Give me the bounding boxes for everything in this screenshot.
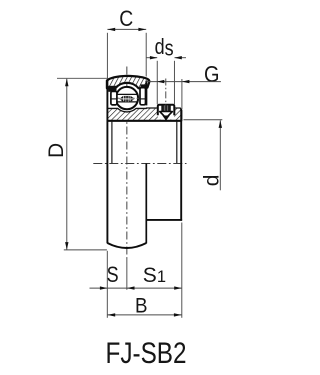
bore line (thick) — [107, 120, 181, 122]
inner ring left face recessed line — [111, 121, 113, 163]
sleeve bottom edge — [146, 219, 183, 221]
S1/B extension line right — [181, 223, 183, 318]
svg-text:FJ-SB2: FJ-SB2 — [106, 337, 187, 370]
S extension line left — [106, 251, 108, 318]
D extension line bottom — [64, 249, 107, 251]
cage rivet cluster — [119, 96, 123, 102]
horizontal axis centerline — [93, 163, 186, 165]
ds extension line left — [156, 61, 158, 104]
svg-text:S1: S1 — [143, 264, 166, 287]
C extension line right — [145, 33, 147, 77]
ds extension line right — [173, 61, 175, 104]
sleeve end extension line — [181, 79, 183, 109]
vertical centerline of bearing — [126, 67, 128, 259]
outer ring right face line lower — [145, 163, 147, 243]
set screw cone tip — [162, 116, 170, 121]
svg-text:C: C — [119, 6, 133, 31]
svg-text:B: B — [135, 294, 148, 317]
outer ring right face line upper — [145, 81, 147, 106]
svg-text:G: G — [204, 61, 220, 87]
D extension line top — [57, 77, 108, 79]
set screw hex socket — [161, 105, 171, 111]
ball — [116, 87, 138, 109]
outer ring left face line — [106, 81, 108, 244]
centerline extension to S/S1 dimension — [126, 259, 128, 290]
sleeve right face — [180, 109, 182, 221]
inner ring and sleeve hatched section — [107, 108, 181, 121]
C extension line left — [106, 33, 108, 78]
svg-text:D: D — [45, 143, 68, 158]
spherical OD bottom arc — [107, 243, 146, 248]
svg-text:S: S — [107, 262, 119, 287]
right seal dark patch — [141, 84, 147, 88]
svg-text:ds: ds — [155, 34, 174, 60]
ball horizontal centerline — [114, 97, 141, 99]
left seal — [111, 91, 117, 105]
set screw backdrop — [158, 104, 174, 120]
right seal — [140, 88, 146, 105]
outer ring hatched section — [107, 76, 149, 88]
set screw centerline — [165, 79, 167, 112]
ball band lines — [116, 93, 138, 95]
set screw cone flank — [160, 112, 173, 118]
sleeve bore-side recessed line — [176, 121, 178, 163]
left seal dark patch — [108, 86, 116, 92]
set screw body outline — [158, 105, 175, 116]
